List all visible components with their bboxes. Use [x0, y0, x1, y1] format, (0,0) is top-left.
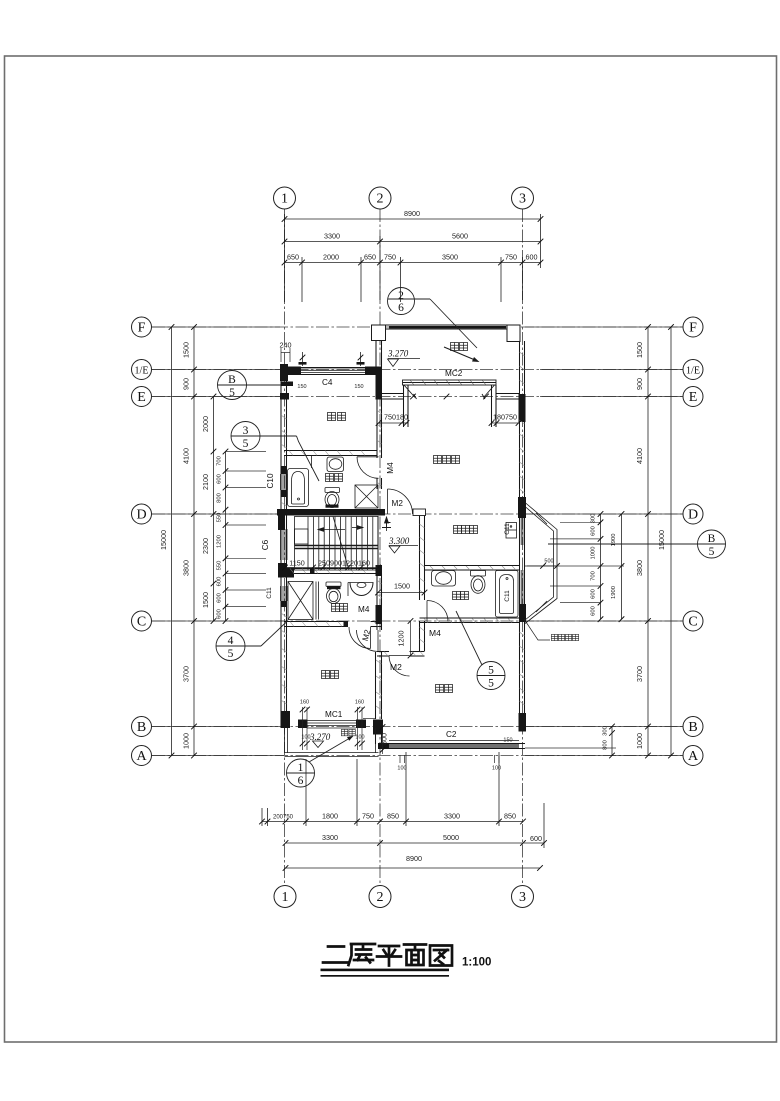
label woshi right (bedroom) [436, 685, 444, 693]
svg-text:240: 240 [280, 341, 292, 350]
window C11 right upper on grid3 [519, 518, 521, 545]
callout 5/5 [477, 662, 505, 690]
GRID BUBBLES [132, 187, 704, 908]
grid line C horizontal [152, 620, 683, 622]
svg-text:2000: 2000 [323, 253, 339, 262]
toilet upper bath [325, 488, 340, 493]
bay window outer octagon [525, 503, 557, 624]
svg-text:600: 600 [591, 606, 597, 616]
lower bath south wall segments [284, 621, 348, 623]
stair mid landing rail [295, 545, 379, 547]
callout 2/6 terrace [388, 288, 415, 315]
svg-text:3: 3 [243, 425, 249, 437]
svg-text:6: 6 [398, 302, 404, 314]
svg-text:C: C [137, 615, 146, 630]
svg-text:C11: C11 [504, 590, 511, 602]
callout 4/5 [216, 632, 245, 661]
svg-text:1500: 1500 [635, 342, 644, 358]
svg-text:3: 3 [519, 890, 526, 905]
svg-text:1800: 1800 [322, 812, 338, 821]
svg-text:180750: 180750 [493, 413, 517, 422]
column grid1 x E [280, 393, 289, 400]
dim 750/180 left of MC2 [379, 422, 409, 424]
window C11 right lower on grid3 [519, 570, 521, 604]
column grid1 x B [282, 711, 291, 728]
grid line 1 vertical [284, 209, 286, 886]
wall black columns [277, 364, 526, 749]
svg-text:M4: M4 [386, 462, 395, 474]
label zhuwoshi (master bedroom) [434, 456, 442, 464]
terrace drainage arrow [444, 347, 480, 362]
svg-text:2: 2 [398, 290, 404, 302]
svg-text:600: 600 [591, 526, 597, 536]
column grid1 x 1/E [280, 364, 288, 381]
svg-text:700: 700 [591, 571, 597, 581]
svg-text:1200: 1200 [217, 535, 223, 548]
level 3.300 stair [389, 545, 418, 547]
dim 800 bedroom left edge [382, 723, 384, 754]
master bedroom north wall E segments [382, 393, 405, 395]
lintel below C11 left [281, 601, 288, 607]
svg-text:6: 6 [298, 775, 304, 787]
bubble C right [683, 611, 703, 631]
label shang (up) at stair [382, 519, 391, 528]
post bath door jamb [344, 622, 349, 627]
bubble E right [683, 387, 703, 407]
RIGHT DIMENSIONS [525, 327, 683, 756]
svg-text:5: 5 [709, 546, 715, 558]
dressing/masterbath west wall [419, 516, 421, 601]
dressing room cabinet [506, 523, 517, 539]
svg-text:C11: C11 [266, 587, 273, 599]
stair risers [307, 517, 309, 571]
column C4 left jamb [281, 367, 301, 376]
leader for exterior paint note [524, 619, 550, 640]
svg-text:5: 5 [488, 678, 494, 690]
stair up arrow left [318, 529, 345, 531]
dim 100 pair below C2 left [399, 755, 401, 763]
svg-text:1900: 1900 [611, 586, 617, 599]
svg-text:1500: 1500 [394, 582, 410, 591]
svg-text:600: 600 [591, 589, 597, 599]
dim chain right 300/800 [611, 727, 613, 756]
svg-text:150: 150 [503, 738, 512, 744]
lintel mark above C10 [281, 466, 288, 474]
svg-text:B: B [137, 720, 146, 735]
svg-text:2000: 2000 [201, 416, 210, 432]
svg-text:300: 300 [603, 726, 609, 736]
callout B/5 left [218, 371, 247, 400]
stair break line [333, 517, 349, 571]
LEFT DIMENSIONS [152, 327, 284, 756]
column C4 right jamb [365, 367, 382, 376]
svg-text:600: 600 [530, 834, 542, 843]
svg-text:M2: M2 [390, 662, 402, 672]
svg-text:15000: 15000 [657, 530, 666, 550]
east wall bay region [519, 518, 521, 604]
bubble F right [683, 317, 703, 337]
bubble D left [132, 504, 152, 524]
title: er ceng ping mian tu (second floor plan) drawn strokes [323, 944, 452, 966]
svg-text:100: 100 [301, 735, 310, 741]
svg-text:C10: C10 [266, 473, 275, 488]
char ceng [349, 944, 376, 965]
svg-text:1: 1 [298, 762, 304, 774]
washbasin lower bath [348, 582, 374, 584]
terrace north parapet [372, 324, 508, 326]
stair outline [295, 517, 379, 571]
svg-text:C: C [688, 615, 697, 630]
svg-text:E: E [137, 390, 146, 405]
svg-text:B: B [228, 374, 236, 386]
svg-text:150: 150 [354, 384, 363, 390]
stair south wall [284, 568, 382, 570]
dim chain right 1900/1900 [621, 514, 623, 619]
svg-text:100: 100 [397, 766, 406, 772]
svg-text:A: A [136, 749, 147, 764]
label lutai balcony small [341, 729, 347, 735]
label woshi left (bedroom) [322, 671, 330, 679]
dim chain right small [600, 514, 602, 619]
wall hatch texture marks [281, 352, 525, 710]
window C11 left wall [280, 586, 282, 601]
svg-text:2: 2 [377, 192, 384, 207]
svg-text:600: 600 [217, 593, 223, 603]
svg-text:3700: 3700 [635, 666, 644, 682]
svg-text:160: 160 [355, 700, 364, 706]
door M4 master bath leaf+arc [426, 601, 428, 622]
grid line 1/E horizontal [152, 369, 683, 371]
window C6 left wall [280, 529, 282, 560]
window C2 on south wall [389, 744, 519, 746]
hatch marks on MC2 sill [410, 380, 486, 385]
column grid3 x E [519, 394, 526, 422]
bathtub master bath [496, 571, 519, 618]
dim line 15000 right [670, 327, 672, 756]
svg-text:4100: 4100 [635, 448, 644, 464]
callout 3/5 [231, 422, 260, 451]
door M4 upper bath leaf+arc [357, 456, 379, 458]
svg-text:5: 5 [228, 648, 234, 660]
label gengyijian (dressing) [454, 526, 462, 534]
grid line 2 vertical [379, 209, 381, 886]
svg-text:C11: C11 [504, 523, 511, 535]
dim line 3300/5600 top [285, 241, 541, 243]
grid line F horizontal [152, 326, 683, 328]
svg-text:M4: M4 [429, 628, 441, 638]
dim line 8900 top [285, 218, 541, 220]
MC2 open leaf left [404, 385, 415, 398]
dim 1200 corridor [410, 621, 412, 656]
svg-text:3800: 3800 [182, 560, 191, 576]
terrace corner piers [372, 325, 521, 342]
label waiqiangtuliao (exterior paint) [551, 634, 557, 640]
dim 160/100 jamb lines left [302, 707, 304, 750]
svg-text:550: 550 [217, 513, 223, 523]
dim 500 bay [527, 565, 557, 567]
washbasin upper bath [327, 457, 344, 472]
dim 1500 corridor [378, 592, 425, 594]
dim 180/750 right of MC2 [492, 422, 519, 424]
svg-text:E: E [689, 390, 698, 405]
dim chain right axis spacings [647, 327, 649, 756]
svg-text:C6: C6 [261, 539, 270, 550]
bubble C left [132, 611, 152, 631]
dim line small chain top [285, 262, 541, 264]
mini dim at MC1 right jamb [363, 718, 375, 720]
grid line A horizontal [152, 755, 683, 757]
svg-text:M2: M2 [392, 499, 404, 508]
dim 160/100 jamb lines right [357, 707, 359, 750]
svg-text:550: 550 [217, 561, 223, 571]
extension lines bottom [261, 808, 263, 826]
east wall bedroom right [519, 622, 521, 713]
bubble 1/E left [132, 360, 152, 380]
svg-text:1:100: 1:100 [462, 957, 491, 969]
dim line 3300/5000/600 bottom [286, 842, 545, 844]
C4 jamb projection stubs [303, 352, 361, 366]
bedroom west wall below B [375, 734, 377, 744]
bath partition stub [311, 456, 313, 469]
dim line 15000 left [171, 327, 173, 756]
bedroom south wall with C2 [378, 743, 525, 745]
MC2 jamb stub left [403, 385, 405, 427]
svg-text:150: 150 [297, 384, 306, 390]
char er [323, 947, 348, 963]
east wall master bedroom double [519, 410, 521, 497]
svg-text:3800: 3800 [635, 560, 644, 576]
pier terrace NE [507, 325, 520, 342]
svg-text:B: B [688, 720, 697, 735]
svg-text:D: D [688, 508, 698, 523]
stair well rail [295, 529, 309, 544]
svg-text:3.270: 3.270 [387, 349, 409, 359]
svg-text:750: 750 [362, 812, 374, 821]
bubble 3 bottom [512, 886, 534, 908]
svg-text:15000: 15000 [159, 530, 168, 550]
dim 240 top left [281, 352, 290, 354]
svg-text:600: 600 [217, 474, 223, 484]
partition shaft/toilet [315, 582, 317, 620]
svg-text:2300: 2300 [201, 538, 210, 554]
svg-text:1: 1 [281, 192, 288, 207]
up arrow at landing [386, 517, 388, 531]
svg-text:1/E: 1/E [686, 366, 700, 377]
grid2 wall below bath door [376, 478, 378, 489]
svg-text:5: 5 [229, 387, 235, 399]
masterbath north wall [425, 565, 520, 567]
level 3.270 terrace [388, 358, 420, 360]
svg-text:C2: C2 [446, 730, 457, 739]
svg-text:1000: 1000 [591, 547, 597, 560]
svg-text:1500: 1500 [201, 592, 210, 608]
title underline thick [321, 969, 450, 972]
char mian [404, 945, 426, 966]
svg-text:1150: 1150 [289, 559, 304, 568]
toilet master bath [471, 571, 486, 577]
svg-text:D: D [136, 508, 146, 523]
bubble D right [683, 504, 703, 524]
grid2 wall E to bath door [376, 399, 378, 458]
window MC1 on B [307, 720, 356, 722]
svg-text:850: 850 [387, 812, 399, 821]
D wall white segment with outline [413, 509, 426, 516]
bubble B right [683, 717, 703, 737]
corner grid1 x D [278, 509, 300, 530]
svg-text:3300: 3300 [444, 812, 460, 821]
post stair south wall mid [310, 569, 315, 575]
svg-text:100: 100 [492, 766, 501, 772]
extension lines top [284, 214, 286, 302]
dim line 8900 bottom [286, 867, 541, 869]
svg-text:B: B [708, 533, 716, 545]
terrace west wall (grid2 up) [375, 328, 377, 367]
dim 100 pair below C2 right [494, 755, 496, 763]
svg-text:600: 600 [526, 253, 538, 262]
leader lines left small chain [152, 327, 284, 756]
svg-text:650: 650 [287, 253, 299, 262]
svg-text:3300: 3300 [324, 232, 340, 241]
dim chain left small [225, 452, 227, 622]
label weiyu lower (bath) [332, 604, 340, 612]
svg-text:MC2: MC2 [445, 369, 463, 378]
svg-text:MC1: MC1 [325, 710, 343, 719]
column grid3 x B [519, 713, 527, 732]
char tu [430, 946, 452, 966]
svg-text:2100: 2100 [201, 474, 210, 490]
bubble 1 bottom [274, 886, 296, 908]
column grid2 x C [376, 605, 383, 624]
stair arrow right [352, 527, 363, 529]
BOTTOM DIMENSIONS [262, 752, 544, 868]
svg-text:3.300: 3.300 [388, 536, 410, 546]
svg-text:750: 750 [505, 253, 517, 262]
label shufang (study) [328, 413, 336, 421]
svg-text:750: 750 [384, 253, 396, 262]
window C4 on 1/E [301, 367, 365, 369]
char ping [377, 946, 401, 966]
TOP DIMENSIONS [285, 214, 541, 302]
column grid3 above D [518, 497, 526, 518]
svg-text:4: 4 [228, 635, 234, 647]
svg-text:200750: 200750 [273, 815, 294, 821]
lintel mark below C10 [281, 490, 288, 497]
bathtub upper bath [288, 469, 309, 507]
svg-text:800: 800 [380, 733, 389, 745]
svg-text:3700: 3700 [182, 666, 191, 682]
svg-text:900: 900 [182, 378, 191, 390]
label zhuwei (master bath) [453, 592, 461, 600]
svg-text:750180: 750180 [384, 413, 408, 422]
svg-text:F: F [138, 321, 146, 336]
pier terrace NW [372, 325, 386, 341]
door M2 master bedroom leaf+arc [387, 489, 389, 514]
column grid2 x B [373, 720, 383, 735]
GRIDLINES [152, 209, 683, 886]
dim line small chain bottom [262, 821, 523, 823]
svg-text:F: F [689, 321, 697, 336]
post C2 left end [378, 744, 389, 749]
grid2 wall bedroom segment [376, 624, 378, 630]
svg-text:600: 600 [217, 609, 223, 619]
column B MC1 left jamb [298, 720, 308, 729]
window C10 left wall [280, 474, 282, 490]
door M4 lower bath leaf+arc [370, 627, 372, 649]
svg-text:3500: 3500 [442, 253, 458, 262]
corner grid1 x stair wall [278, 563, 294, 578]
stair open edge [377, 516, 379, 570]
bath north wall [284, 450, 377, 452]
svg-text:100: 100 [355, 735, 364, 741]
svg-text:700: 700 [217, 456, 223, 466]
svg-text:800: 800 [603, 740, 609, 750]
dim chain left rooms [213, 397, 215, 622]
level 3.270 balcony [313, 741, 324, 748]
grid line 3 vertical [522, 209, 524, 886]
grid line E horizontal [152, 396, 683, 398]
svg-text:650: 650 [364, 253, 376, 262]
left exterior wall double line [280, 364, 282, 728]
grid2 wall stair to bath lower [376, 574, 378, 606]
MC2 open leaf right [484, 385, 495, 398]
svg-text:3: 3 [519, 192, 526, 207]
callout B/5 right [698, 530, 726, 558]
grid line D horizontal [152, 513, 683, 515]
svg-text:5: 5 [488, 665, 494, 677]
post D wall stair corner [277, 509, 385, 516]
svg-text:900: 900 [635, 378, 644, 390]
column grid3 mid bay [519, 604, 526, 622]
MC2 jamb stub right [491, 385, 493, 427]
svg-text:8900: 8900 [404, 209, 420, 218]
bubble A left [132, 746, 152, 766]
toilet lower bath [326, 582, 341, 587]
bubble 2 bottom [369, 886, 391, 908]
svg-text:800: 800 [217, 493, 223, 503]
callout 1/6 balcony [287, 759, 315, 787]
corridor south wall segments [377, 651, 389, 653]
svg-text:M4: M4 [358, 605, 370, 614]
title underline thin [321, 975, 450, 977]
flue shaft lower with X [288, 582, 313, 620]
svg-text:3.270: 3.270 [309, 732, 331, 742]
svg-text:500: 500 [544, 559, 553, 565]
door M2 bedroom left leaf+arc [377, 630, 379, 652]
bubble B left [132, 717, 152, 737]
door M2 corridor south leaf+arc [389, 655, 410, 657]
flue shaft upper with X [355, 485, 378, 508]
svg-text:2: 2 [377, 890, 384, 905]
svg-text:2509001220160: 2509001220160 [318, 559, 370, 568]
label weiyu upper (bath) [326, 474, 334, 482]
post stair south wall east [376, 565, 383, 576]
svg-text:5000: 5000 [443, 833, 459, 842]
svg-text:300: 300 [591, 514, 597, 524]
svg-text:1900: 1900 [611, 534, 617, 547]
bubble 2 top [369, 187, 391, 209]
label lutai terrace [451, 343, 459, 351]
bubble A right [683, 746, 703, 766]
svg-text:1200: 1200 [397, 631, 406, 647]
svg-text:1: 1 [282, 890, 289, 905]
study north wall 1/E [281, 367, 382, 369]
MC2 terrace door-window [403, 380, 497, 399]
washbasin master bath [432, 571, 456, 587]
svg-text:C4: C4 [322, 378, 333, 387]
bubble 1/E right [683, 360, 703, 380]
svg-text:850: 850 [504, 812, 516, 821]
bubble 1 top [274, 187, 296, 209]
